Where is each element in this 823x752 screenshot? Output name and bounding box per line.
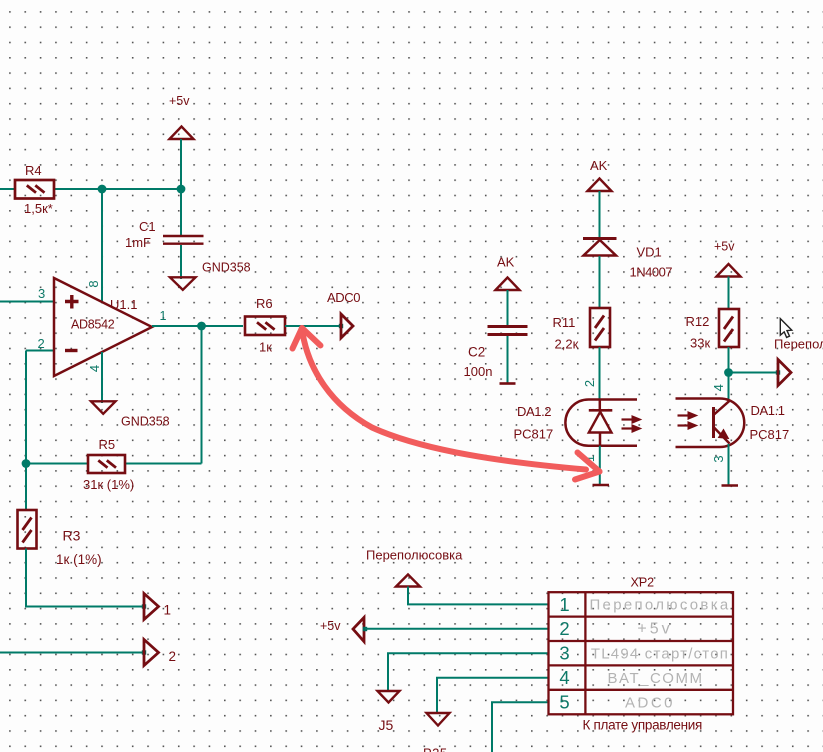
optocoupler DA1.2 LED side bbox=[565, 400, 641, 446]
junction node at R4/+5v bbox=[177, 185, 186, 194]
wire VD1 to R11 bbox=[599, 256, 601, 308]
power +5v symbol top bbox=[170, 127, 194, 140]
wire XP2 pin 4 down bbox=[437, 678, 549, 713]
svg-text:5: 5 bbox=[559, 691, 569, 712]
junction node output bbox=[197, 322, 206, 331]
svg-text:1: 1 bbox=[559, 594, 569, 615]
wire R3 bottom to port 1 bbox=[26, 549, 144, 607]
svg-text:XP2: XP2 bbox=[631, 576, 655, 590]
junction node R12/port bbox=[724, 368, 733, 377]
wire op-amp pin 3 input bbox=[0, 301, 54, 303]
wire end marker +5v bbox=[363, 627, 367, 631]
wire XP2 pin 3 to arrow J5 bbox=[388, 653, 549, 690]
svg-text:GND358: GND358 bbox=[202, 261, 251, 275]
wire +5v to R12 bbox=[728, 277, 730, 310]
junction node pin8 branch bbox=[98, 185, 107, 194]
wire R4 right lead to +5v node bbox=[54, 188, 181, 190]
svg-text:3: 3 bbox=[559, 643, 569, 664]
svg-text:PC817: PC817 bbox=[514, 427, 554, 442]
mouse cursor bbox=[780, 319, 792, 338]
wire +5v port to XP2 pin 2 bbox=[365, 628, 549, 630]
svg-text:1: 1 bbox=[160, 309, 167, 323]
resistor R12 bbox=[719, 309, 739, 347]
svg-text:4: 4 bbox=[711, 384, 726, 391]
svg-text:AD8542: AD8542 bbox=[71, 318, 115, 332]
ground arrow J5 bbox=[378, 691, 400, 703]
wire end marker port 1 bbox=[142, 604, 146, 608]
resistor R6 bbox=[245, 317, 285, 336]
svg-text:BAT_COMM: BAT_COMM bbox=[608, 670, 704, 687]
wire C2 bottom stem bbox=[507, 336, 509, 383]
connector XP2 bbox=[549, 592, 734, 714]
wire XP2 pin 5 down bbox=[492, 702, 549, 752]
wire op-amp pin 2 input bbox=[26, 351, 54, 464]
svg-text:C1: C1 bbox=[139, 219, 156, 234]
wire +5v stem bbox=[180, 139, 182, 189]
port Переполюсовка right bbox=[778, 360, 791, 386]
svg-text:1: 1 bbox=[164, 603, 172, 618]
wire feedback vertical bbox=[201, 326, 203, 464]
wire AK to VD1 bbox=[599, 191, 601, 237]
junction node feedback bbox=[22, 459, 31, 468]
power symbol Переполюсовка bbox=[396, 575, 420, 587]
terminal bar DA1.1 pin 3 bbox=[722, 484, 739, 487]
wire R5 right lead bbox=[125, 463, 202, 465]
svg-text:+5v: +5v bbox=[637, 621, 672, 638]
svg-text:2: 2 bbox=[169, 649, 177, 664]
svg-text:2: 2 bbox=[582, 380, 597, 387]
svg-text:8: 8 bbox=[86, 280, 101, 287]
wire end marker port 2 bbox=[142, 650, 146, 654]
svg-text:DA1.1: DA1.1 bbox=[751, 403, 785, 418]
svg-text:R4: R4 bbox=[25, 163, 42, 178]
capacitor C2 bbox=[488, 327, 528, 335]
svg-text:+5v: +5v bbox=[169, 94, 190, 108]
svg-text:GND358: GND358 bbox=[121, 415, 170, 429]
wire R5 left lead bbox=[26, 463, 88, 465]
svg-text:4: 4 bbox=[559, 667, 569, 688]
wire pin 8 drop bbox=[101, 189, 103, 302]
svg-text:Переполюсовка: Переполюсовка bbox=[589, 597, 730, 614]
svg-text:VD1: VD1 bbox=[637, 245, 662, 260]
wire end marker ADC0 bbox=[339, 324, 343, 328]
svg-text:R12: R12 bbox=[686, 314, 710, 329]
power AK symbol above VD1 bbox=[588, 179, 612, 192]
svg-text:1,5к*: 1,5к* bbox=[24, 201, 53, 216]
optocoupler DA1.1 transistor side bbox=[676, 399, 745, 448]
svg-text:AK: AK bbox=[497, 255, 515, 270]
wire op-amp output bbox=[152, 325, 243, 327]
svg-text:R6: R6 bbox=[256, 296, 273, 311]
terminal bar DA1.2 pin 1 bbox=[593, 484, 610, 487]
annotation red arrow bbox=[293, 328, 600, 480]
port +5v left bbox=[353, 618, 364, 642]
wire C1 top stem bbox=[180, 189, 182, 235]
svg-text:33к: 33к bbox=[690, 336, 710, 351]
svg-text:Р25: Р25 bbox=[423, 746, 448, 752]
svg-text:1mF: 1mF bbox=[125, 235, 151, 250]
svg-text:100n: 100n bbox=[464, 364, 493, 379]
svg-text:R5: R5 bbox=[99, 437, 116, 452]
svg-text:AK: AK bbox=[590, 158, 608, 173]
svg-text:TL494 старт/стоп: TL494 старт/стоп bbox=[591, 646, 729, 663]
wire Переполюсовка to XP2 pin 1 bbox=[408, 587, 549, 605]
svg-text:Переполюсовка: Переполюсовка bbox=[366, 548, 463, 563]
svg-text:К плате управления: К плате управления bbox=[583, 718, 703, 733]
svg-text:3: 3 bbox=[38, 286, 45, 301]
svg-text:+5v: +5v bbox=[714, 240, 735, 254]
wire R12 to DA1.1 pin 4 bbox=[728, 347, 730, 401]
wire pin 4 drop bbox=[101, 352, 103, 403]
wire DA1.2 pin 1 bbox=[599, 446, 601, 484]
svg-text:ADC0: ADC0 bbox=[625, 695, 675, 712]
resistor R11 bbox=[590, 308, 610, 347]
svg-text:2,2к: 2,2к bbox=[555, 337, 579, 352]
wire DA1.1 pin 3 bbox=[728, 444, 730, 485]
wire R3 top lead bbox=[25, 464, 27, 511]
wire junction to port bbox=[729, 372, 779, 374]
resistor R3 bbox=[18, 510, 37, 549]
wire R6 to ADC0 port bbox=[285, 325, 341, 327]
terminal bar C2 bbox=[500, 382, 516, 385]
svg-text:DA1.2: DA1.2 bbox=[517, 404, 551, 419]
svg-text:R3: R3 bbox=[63, 528, 81, 544]
power AK symbol above C2 bbox=[496, 278, 520, 291]
port 1 bbox=[144, 594, 159, 620]
ground arrow bottom bbox=[427, 713, 450, 726]
svg-text:U1.1: U1.1 bbox=[110, 297, 137, 312]
svg-text:1N4007: 1N4007 bbox=[630, 265, 673, 280]
svg-text:R11: R11 bbox=[553, 315, 576, 330]
svg-text:31к (1%): 31к (1%) bbox=[83, 477, 134, 492]
svg-text:Перепол: Перепол bbox=[774, 337, 823, 352]
power +5v symbol above R12 bbox=[717, 264, 741, 277]
svg-text:3: 3 bbox=[711, 455, 726, 462]
ground GND358 under op-amp bbox=[91, 401, 116, 414]
svg-text:ADC0: ADC0 bbox=[327, 290, 360, 305]
svg-text:1к: 1к bbox=[259, 340, 272, 355]
resistor R5 bbox=[88, 455, 125, 473]
port ADC0 bbox=[341, 314, 353, 338]
capacitor C1 bbox=[163, 236, 204, 244]
diode VD1 bbox=[583, 239, 617, 256]
wire R4 left lead bbox=[0, 188, 15, 190]
wire C1 bottom stem bbox=[180, 245, 182, 279]
wire R11 to DA1.2 pin 2 bbox=[599, 347, 601, 399]
svg-text:PC817: PC817 bbox=[750, 427, 790, 442]
ground GND358 under C1 bbox=[170, 277, 196, 290]
svg-text:J5: J5 bbox=[379, 717, 394, 733]
svg-text:C2: C2 bbox=[468, 345, 485, 360]
wire end marker port bbox=[776, 370, 780, 374]
svg-text:4: 4 bbox=[87, 365, 102, 372]
wire port 2 bbox=[0, 652, 144, 654]
port 2 bbox=[144, 640, 159, 666]
svg-text:+5v: +5v bbox=[320, 619, 341, 633]
svg-text:2: 2 bbox=[559, 618, 569, 639]
op-amp U1.1 bbox=[54, 278, 152, 376]
svg-text:1к (1%): 1к (1%) bbox=[56, 552, 102, 567]
resistor R4 bbox=[15, 180, 54, 199]
svg-text:2: 2 bbox=[38, 336, 45, 351]
wire C2 top stem bbox=[507, 290, 509, 325]
